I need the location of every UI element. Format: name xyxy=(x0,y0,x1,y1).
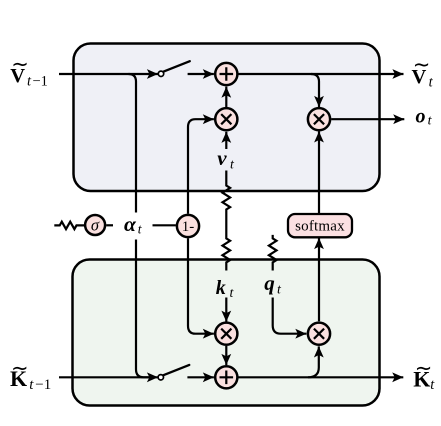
wire alpha branch upper (junction on V line down to alpha node) xyxy=(129,74,137,213)
plus bottom circle xyxy=(215,366,237,388)
wire top switch to plus xyxy=(188,73,214,75)
svg-text:t: t xyxy=(428,114,433,129)
label v_t xyxy=(217,146,235,172)
svg-text:t: t xyxy=(29,377,34,393)
wire V input from Vtilde_{t-1} to top switch xyxy=(59,73,158,75)
wire v_t up into otimes mid xyxy=(225,132,227,149)
box bottom (K state, green) xyxy=(73,260,380,406)
wire q_t into otimes bottom-right xyxy=(273,298,307,334)
svg-text:α: α xyxy=(124,212,137,236)
sigma circle xyxy=(85,215,105,235)
wire v/k vertical with stop-grad zigzags xyxy=(223,171,231,271)
switch top: pivot circle xyxy=(158,71,163,76)
otimes bottom-left circle xyxy=(215,323,237,345)
label Vtilde_t xyxy=(412,53,434,91)
wire 1-minus upper to otimes mid (left input) xyxy=(188,119,214,214)
wire K output to Ktilde_t xyxy=(239,376,404,378)
wire sigma to alpha dash xyxy=(106,224,113,226)
wire 1-minus lower to otimes bottom-left (left input) xyxy=(188,238,214,334)
svg-text:t: t xyxy=(138,222,143,237)
svg-text:V: V xyxy=(412,66,427,88)
label Vtilde_{t-1} xyxy=(10,52,48,89)
switch bottom: lever xyxy=(163,365,189,375)
softmax box xyxy=(288,214,352,237)
wire k_t down into otimes bottom-left xyxy=(225,298,227,322)
svg-text:K: K xyxy=(10,366,27,391)
wire alpha to 1-minus xyxy=(153,224,176,226)
label Ktilde_{t-1} xyxy=(10,356,51,393)
wire q_t stub with zigzag xyxy=(269,235,277,271)
svg-text:−1: −1 xyxy=(35,377,51,393)
switch top: lever xyxy=(164,61,190,71)
wire alpha branch lower (alpha node down, merge into K switch arrow) xyxy=(136,240,150,378)
svg-text:t: t xyxy=(429,74,434,90)
label o_t xyxy=(416,105,433,128)
wire V output to Vtilde_t xyxy=(239,73,404,75)
wire branch V output down to right otimes xyxy=(311,74,319,107)
svg-text:t: t xyxy=(430,377,435,393)
plus top circle xyxy=(215,63,237,85)
label q_t xyxy=(264,271,282,298)
svg-text:V: V xyxy=(10,65,25,87)
svg-text:k: k xyxy=(216,277,226,299)
wire otimes mid up into plus xyxy=(225,87,227,108)
otimes bottom-right circle xyxy=(308,323,330,345)
wire otimes bottom-left down into plus bottom xyxy=(225,346,227,365)
switch bottom: pivot circle xyxy=(158,375,163,380)
wire bottom switch to plus bottom xyxy=(187,376,214,378)
wire softmax output up into right otimes xyxy=(318,131,320,214)
svg-text:1-: 1- xyxy=(182,219,195,235)
svg-text:v: v xyxy=(217,146,227,170)
otimes top-mid circle xyxy=(215,108,237,130)
label k_t xyxy=(216,277,235,301)
svg-text:softmax: softmax xyxy=(295,219,345,235)
label Ktilde_t xyxy=(413,356,435,393)
svg-text:K: K xyxy=(413,366,430,391)
otimes top-right circle xyxy=(308,108,330,130)
wire o output to o_t xyxy=(331,118,404,120)
svg-text:t: t xyxy=(27,73,32,89)
1-minus circle xyxy=(177,215,199,237)
svg-text:σ: σ xyxy=(91,215,100,234)
svg-text:−1: −1 xyxy=(33,73,48,89)
label alpha_t xyxy=(124,212,143,237)
box top (V state, lavender) xyxy=(74,44,380,192)
wire otimes bottom-right up into softmax xyxy=(318,238,320,321)
wire sigma input zigzag xyxy=(54,222,84,229)
wire K input from Ktilde_{t-1} to bottom switch xyxy=(59,376,158,378)
svg-text:q: q xyxy=(264,271,275,295)
svg-text:o: o xyxy=(416,105,426,127)
wire branch K output up into otimes bottom-right xyxy=(308,346,319,377)
